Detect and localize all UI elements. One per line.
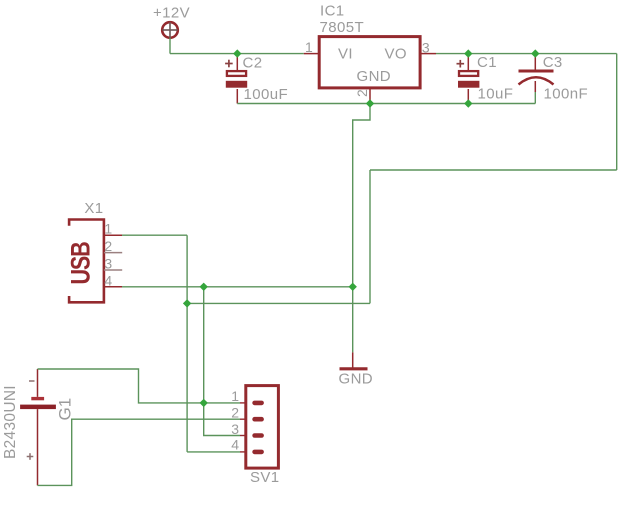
junction battery minus bbox=[200, 399, 208, 407]
svg-text:1: 1 bbox=[231, 388, 239, 404]
X1 body outline bbox=[69, 220, 104, 303]
svg-text:C1: C1 bbox=[477, 54, 497, 71]
X1 pin 2 stub bbox=[104, 252, 122, 254]
IC1 pin 1 stub bbox=[304, 53, 319, 55]
SV1 pin 4 stub bbox=[240, 451, 246, 453]
C3 curved plate bbox=[519, 77, 554, 84]
svg-text:SV1: SV1 bbox=[250, 469, 280, 486]
SV1 body outline bbox=[246, 386, 279, 469]
svg-text:2: 2 bbox=[354, 89, 370, 97]
ground symbol bbox=[340, 352, 368, 368]
G1 negative pin bbox=[37, 369, 39, 397]
C1 negative plate bbox=[458, 81, 479, 88]
wire +12V to IC pin 1 bbox=[170, 53, 304, 55]
wire x187 vertical bbox=[186, 235, 188, 452]
junction C1 bottom bbox=[464, 99, 472, 107]
G1 long plate bbox=[20, 405, 56, 410]
C3 top pin bbox=[534, 54, 536, 71]
C1 top pin bbox=[467, 54, 469, 71]
wire SV1 pin4 bbox=[187, 451, 240, 453]
wire y170 horizontal bbox=[370, 169, 617, 171]
G1 plus mark bbox=[27, 456, 34, 458]
C2 negative plate bbox=[226, 81, 247, 88]
G1 minus mark bbox=[29, 380, 35, 382]
junction GND tap bbox=[200, 283, 208, 291]
svg-text:2: 2 bbox=[231, 405, 239, 421]
G1 positive pin bbox=[37, 409, 39, 485]
capacitor C3 bbox=[519, 54, 554, 104]
svg-text:10uF: 10uF bbox=[478, 86, 514, 103]
wire right vertical bbox=[616, 54, 618, 170]
junction C2 top bbox=[233, 49, 241, 57]
svg-text:IC1: IC1 bbox=[320, 3, 345, 20]
SV1 pin 3 stub bbox=[240, 435, 246, 437]
svg-text:3: 3 bbox=[104, 256, 112, 272]
wire USB pin4 to GND vertical bbox=[122, 286, 353, 288]
svg-text:X1: X1 bbox=[84, 200, 103, 217]
svg-text:2: 2 bbox=[104, 238, 112, 254]
battery G1 bbox=[20, 369, 56, 485]
SV1 pin 1 stub bbox=[240, 402, 246, 404]
+12V circle bbox=[162, 22, 178, 38]
junction C3 top bbox=[531, 49, 539, 57]
SV1 pad 4 bbox=[252, 450, 264, 455]
wire GND jog bbox=[353, 104, 370, 353]
X1 pin 3 stub bbox=[104, 269, 122, 271]
wire VO to right edge bbox=[436, 53, 617, 55]
SV1 pad 2 bbox=[252, 417, 264, 422]
svg-text:VO: VO bbox=[385, 46, 407, 63]
svg-text:G1: G1 bbox=[56, 398, 75, 421]
junction C1 top bbox=[464, 49, 472, 57]
wire C3 bottom bbox=[534, 92, 536, 104]
svg-text:USB: USB bbox=[66, 242, 96, 285]
connector X1 USB bbox=[66, 220, 122, 303]
svg-text:C2: C2 bbox=[243, 55, 263, 72]
capacitor C1 bbox=[457, 54, 480, 104]
SV1 pad 3 bbox=[252, 433, 264, 438]
wire battery plus bbox=[38, 419, 241, 485]
wire GND horizontal y103 bbox=[237, 103, 535, 105]
wire x203.7 vertical bbox=[204, 287, 240, 436]
IC1 pin 3 stub bbox=[420, 53, 436, 55]
wire x370 vertical bbox=[369, 170, 371, 303]
capacitor C2 bbox=[225, 54, 247, 104]
wire USB pin1 bbox=[122, 234, 187, 236]
svg-text:B2430UNI: B2430UNI bbox=[2, 385, 19, 459]
voltage regulator IC1 bbox=[319, 37, 420, 88]
svg-text:100nF: 100nF bbox=[544, 86, 589, 103]
svg-text:C3: C3 bbox=[543, 54, 563, 71]
ground bar bbox=[340, 367, 368, 370]
+12V plus mark bbox=[162, 29, 178, 31]
SV1 pad 1 bbox=[252, 401, 264, 406]
svg-text:4: 4 bbox=[231, 437, 239, 453]
C2 plus mark bbox=[225, 63, 233, 65]
svg-text:1: 1 bbox=[104, 221, 112, 237]
svg-text:3: 3 bbox=[231, 421, 239, 437]
svg-text:GND: GND bbox=[339, 370, 374, 387]
C1 plus mark bbox=[457, 63, 465, 65]
svg-text:1: 1 bbox=[305, 39, 313, 55]
svg-text:VI: VI bbox=[338, 46, 353, 63]
C3 straight plate bbox=[519, 70, 554, 73]
SV1 pin 2 stub bbox=[240, 418, 246, 420]
supply +12V symbol bbox=[162, 22, 178, 38]
C1 positive plate bbox=[459, 71, 478, 76]
G1 short plate bbox=[31, 397, 44, 400]
junction GND vertical bbox=[349, 283, 357, 291]
svg-text:100uF: 100uF bbox=[244, 86, 289, 103]
ground pin bbox=[352, 352, 354, 368]
IC1 GND pin stub bbox=[369, 88, 371, 104]
svg-text:GND: GND bbox=[357, 68, 392, 85]
C2 bottom pin bbox=[236, 89, 238, 104]
junction +5V tap bbox=[183, 299, 191, 307]
svg-text:+12V: +12V bbox=[153, 5, 190, 22]
C2 top pin bbox=[236, 54, 238, 71]
wire battery minus bbox=[38, 369, 241, 403]
X1 pin 1 stub bbox=[104, 234, 122, 236]
C3 bottom pin bbox=[534, 81, 536, 92]
C2 positive plate bbox=[227, 71, 246, 76]
wire y303 horizontal bbox=[187, 302, 370, 304]
C1 bottom pin bbox=[467, 89, 469, 104]
connector SV1 bbox=[240, 386, 278, 469]
svg-text:4: 4 bbox=[104, 272, 112, 288]
X1 pin 4 stub bbox=[104, 286, 122, 288]
junction IC GND bbox=[366, 99, 374, 107]
wire +12V vertical bbox=[169, 38, 171, 54]
svg-text:7805T: 7805T bbox=[320, 19, 365, 36]
